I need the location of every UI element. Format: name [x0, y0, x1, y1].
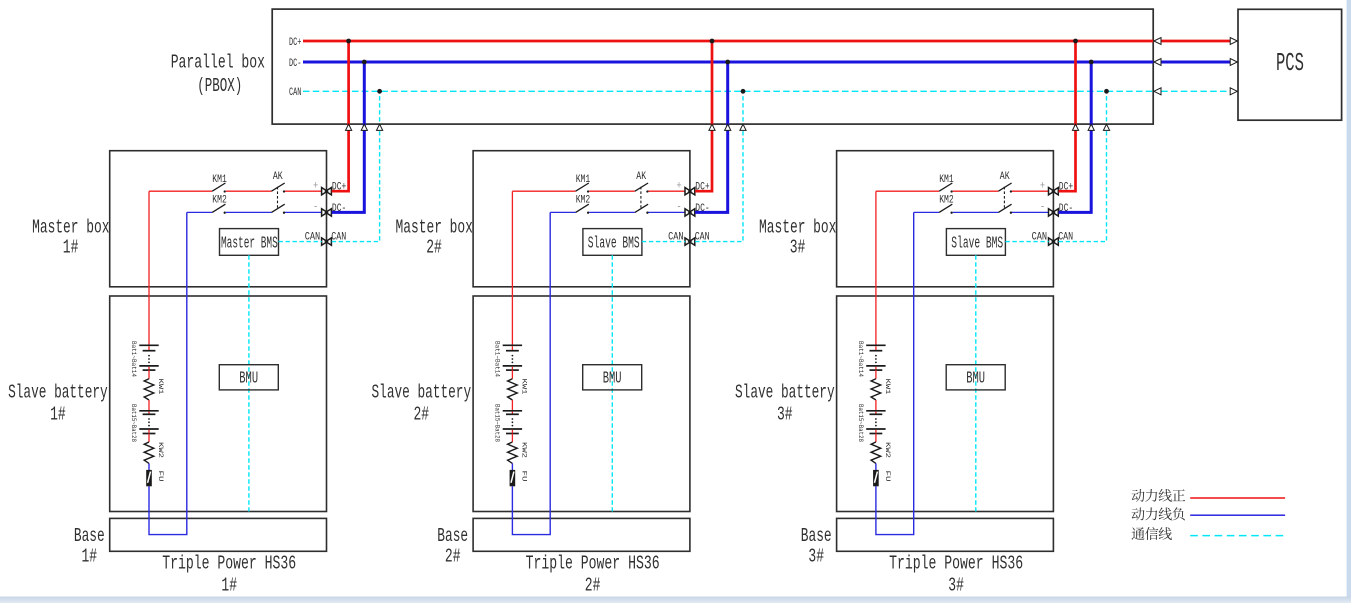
- legend line communication: [1132, 527, 1286, 540]
- svg-text:3#: 3#: [777, 403, 793, 425]
- junction dot DC- bus set 1: [362, 60, 367, 65]
- svg-text:1#: 1#: [82, 546, 98, 568]
- label Base 2: [437, 525, 468, 568]
- wire cyan CAN link terminal to CAN bus box 3: [1059, 91, 1107, 241]
- breaker AK box 3: [998, 171, 1012, 214]
- svg-text:2#: 2#: [585, 575, 601, 597]
- svg-text:AK: AK: [1000, 171, 1010, 183]
- wire red from master box down to battery stack 3: [875, 191, 877, 345]
- BMU box 2: [583, 365, 642, 390]
- svg-text:Triple Power HS36: Triple Power HS36: [889, 553, 1023, 575]
- svg-text:AK: AK: [273, 171, 283, 183]
- wire CAN dashed from BMS to terminal box 1: [279, 241, 322, 243]
- label Master box 3: [759, 216, 836, 258]
- net CAN bus (cyan dashed): [289, 87, 1153, 99]
- svg-text:Base: Base: [437, 525, 468, 547]
- svg-text:KM2: KM2: [939, 194, 954, 206]
- resistor KW2 set 1: [144, 442, 164, 463]
- svg-text:Slave BMS: Slave BMS: [951, 234, 1003, 253]
- base box 2 enclosure: [473, 518, 690, 551]
- Parallel box (PBOX) enclosure: [272, 9, 1153, 124]
- battery Bat15~Bat28 set 1: [139, 411, 158, 434]
- base box 3 enclosure: [837, 518, 1054, 551]
- fuse FU set 1: [146, 470, 164, 486]
- svg-text:1#: 1#: [50, 403, 66, 425]
- svg-text:KW1: KW1: [157, 379, 164, 395]
- BMS box 2: [583, 229, 642, 256]
- legend line power negative: [1132, 507, 1285, 520]
- wire PBOX to PCS DC- link: [1154, 59, 1237, 66]
- svg-text:Triple Power HS36: Triple Power HS36: [526, 553, 660, 575]
- BMS box 1: [220, 229, 279, 256]
- wire CAN dashed from BMS to terminal box 3: [1005, 241, 1048, 243]
- battery Bat15~Bat28 set 3: [866, 411, 885, 434]
- svg-text:-: -: [1040, 202, 1045, 214]
- svg-text:Master box: Master box: [396, 216, 473, 238]
- label Slave battery 3: [735, 382, 835, 426]
- svg-text:BMU: BMU: [966, 368, 985, 387]
- svg-text:Bat1~Bat14: Bat1~Bat14: [857, 341, 864, 377]
- svg-text:Base: Base: [74, 525, 105, 547]
- connector arrows into PBOX set 3: [1072, 124, 1109, 130]
- BMU box 3: [946, 365, 1005, 390]
- battery Bat1~Bat14 set 2: [503, 345, 522, 370]
- svg-text:-: -: [676, 202, 681, 214]
- wire blue negative path inside master box 2: [550, 211, 685, 213]
- wire blue fuse through base box up to KM2 set 3: [876, 212, 914, 534]
- wire CAN dashed vertical from BMS down to BMU box 2: [611, 255, 613, 511]
- BMU box 1: [219, 365, 278, 390]
- svg-text:Master box: Master box: [759, 216, 836, 238]
- svg-text:FU: FU: [884, 471, 891, 482]
- label Base 1: [74, 525, 105, 568]
- wire red positive path inside master box 2: [512, 190, 685, 192]
- resistor KW1 set 1: [144, 379, 164, 401]
- fuse FU set 2: [510, 470, 528, 486]
- svg-text:3#: 3#: [948, 575, 964, 597]
- svg-text:Slave battery: Slave battery: [8, 382, 108, 404]
- svg-text:KM1: KM1: [576, 174, 591, 186]
- label Triple Power HS36 2: [526, 553, 660, 597]
- terminal DC- bowtie box 3: [1040, 202, 1073, 216]
- junction dot DC+ bus set 3: [1073, 39, 1078, 44]
- svg-text:+: +: [313, 181, 319, 193]
- junction dot DC+ bus set 1: [346, 39, 351, 44]
- wire CAN dashed vertical from BMS down to BMU box 3: [975, 255, 977, 511]
- svg-text:KW2: KW2: [157, 442, 164, 458]
- svg-text:FU: FU: [157, 471, 164, 482]
- terminal DC- bowtie box 2: [676, 202, 709, 216]
- svg-text:1#: 1#: [221, 575, 237, 597]
- connector arrows into PBOX set 2: [709, 124, 746, 130]
- wire blue fuse through base box up to KM2 set 2: [512, 212, 550, 534]
- slave battery box 3 enclosure: [837, 296, 1054, 512]
- svg-text:3#: 3#: [790, 237, 806, 259]
- resistor KW1 set 3: [871, 379, 891, 401]
- terminal DC+ bowtie box 2: [676, 181, 709, 195]
- svg-text:FU: FU: [520, 471, 527, 482]
- wire thick red link terminal to DC+ bus box 2: [695, 41, 712, 191]
- svg-text:Bat1~Bat14: Bat1~Bat14: [493, 341, 500, 377]
- svg-text:Bat1~Bat14: Bat1~Bat14: [130, 341, 137, 377]
- label Base 3: [801, 525, 832, 568]
- svg-text:CAN: CAN: [289, 87, 301, 99]
- label Master box 1: [32, 216, 109, 258]
- svg-text:AK: AK: [636, 171, 646, 183]
- svg-text:BMU: BMU: [239, 368, 258, 387]
- battery Bat15~Bat28 set 2: [503, 411, 522, 434]
- base box 1 enclosure: [110, 518, 327, 551]
- wire blue resistor to fuse set 3: [875, 463, 877, 470]
- master box 1 enclosure: [110, 151, 327, 287]
- junction dot CAN bus set 3: [1104, 89, 1109, 94]
- junction dot CAN bus set 2: [741, 89, 746, 94]
- svg-text:(PBOX): (PBOX): [197, 75, 242, 97]
- label Master box 2: [396, 216, 473, 258]
- breaker AK box 1: [272, 171, 286, 214]
- svg-text:1#: 1#: [63, 237, 79, 259]
- wire red from master box down to battery stack 1: [148, 191, 150, 345]
- wire thick red link terminal to DC+ bus box 3: [1059, 41, 1076, 191]
- wire cyan CAN link terminal to CAN bus box 2: [695, 91, 743, 241]
- svg-text:Bat15~Bat28: Bat15~Bat28: [857, 404, 864, 442]
- wire PBOX to PCS CAN link: [1154, 88, 1237, 95]
- contactor KM1 box 3: [939, 174, 954, 192]
- wire blue fuse through base box up to KM2 set 1: [149, 212, 187, 534]
- svg-text:DC+: DC+: [289, 37, 302, 49]
- terminal DC+ bowtie box 3: [1040, 181, 1073, 195]
- wire red battery link 2 set 3: [875, 400, 877, 411]
- net DC- bus (blue): [289, 58, 1153, 70]
- wire red battery link set 3: [875, 370, 877, 379]
- svg-text:KW1: KW1: [520, 379, 527, 395]
- junction dot DC+ bus set 2: [710, 39, 715, 44]
- svg-text:BMU: BMU: [603, 368, 622, 387]
- svg-text:KW2: KW2: [520, 442, 527, 458]
- svg-text:Slave battery: Slave battery: [372, 382, 472, 404]
- wire thick blue link terminal to DC- bus box 2: [695, 62, 728, 212]
- wire CAN dashed vertical from BMS down to BMU box 1: [248, 255, 250, 511]
- junction dot DC- bus set 2: [725, 60, 730, 65]
- contactor KM2 box 3: [939, 194, 954, 213]
- svg-text:+: +: [1040, 181, 1046, 193]
- wire thick blue link terminal to DC- bus box 1: [332, 62, 365, 212]
- wire red battery link 3 set 3: [875, 434, 877, 443]
- junction dot CAN bus set 1: [377, 89, 382, 94]
- legend line power positive: [1132, 489, 1285, 502]
- junction dot DC- bus set 3: [1089, 60, 1094, 65]
- slave battery box 2 enclosure: [473, 296, 690, 512]
- terminal DC- bowtie box 1: [313, 202, 346, 216]
- wire red battery link 2 set 2: [511, 400, 513, 411]
- contactor KM2 box 1: [212, 194, 227, 213]
- svg-text:KM2: KM2: [576, 194, 591, 206]
- wire thick red link terminal to DC+ bus box 1: [332, 41, 349, 191]
- PCS box: [1238, 9, 1342, 120]
- master box 2 enclosure: [473, 151, 690, 287]
- svg-text:KM2: KM2: [212, 194, 227, 206]
- svg-text:3#: 3#: [808, 546, 824, 568]
- resistor KW2 set 2: [508, 442, 528, 463]
- net DC+ bus (red): [289, 37, 1153, 49]
- svg-text:2#: 2#: [445, 546, 461, 568]
- wire red battery link 2 set 1: [148, 400, 150, 411]
- window edge band right: [1347, 0, 1351, 603]
- svg-text:PCS: PCS: [1276, 49, 1304, 78]
- svg-text:+: +: [676, 181, 682, 193]
- wire red battery link set 2: [511, 370, 513, 379]
- breaker AK box 2: [635, 171, 649, 214]
- svg-text:2#: 2#: [426, 237, 442, 259]
- svg-text:DC-: DC-: [289, 58, 301, 70]
- BMS box 3: [946, 229, 1005, 256]
- wire blue negative path inside master box 3: [914, 211, 1049, 213]
- fuse FU set 3: [873, 470, 891, 486]
- wire red from master box down to battery stack 2: [511, 191, 513, 345]
- master box 3 enclosure: [837, 151, 1054, 287]
- label Parallel box (PBOX): [171, 51, 265, 97]
- label Triple Power HS36 1: [162, 553, 296, 597]
- contactor KM1 box 2: [576, 174, 591, 192]
- svg-text:Bat15~Bat28: Bat15~Bat28: [493, 404, 500, 442]
- wire CAN dashed from BMS to terminal box 2: [642, 241, 685, 243]
- window edge band bottom: [0, 597, 1351, 603]
- wire cyan CAN link terminal to CAN bus box 1: [332, 91, 380, 241]
- wire red battery link set 1: [148, 370, 150, 379]
- label Slave battery 1: [8, 382, 108, 426]
- svg-text:Base: Base: [801, 525, 832, 547]
- wire blue negative path inside master box 1: [187, 211, 322, 213]
- svg-text:Parallel box: Parallel box: [171, 51, 265, 73]
- connector arrows into PBOX set 1: [346, 124, 383, 130]
- svg-text:Slave battery: Slave battery: [735, 382, 835, 404]
- resistor KW1 set 2: [508, 379, 528, 401]
- svg-text:KM1: KM1: [212, 174, 227, 186]
- wire thick blue link terminal to DC- bus box 3: [1059, 62, 1092, 212]
- resistor KW2 set 3: [871, 442, 891, 463]
- contactor KM1 box 1: [212, 174, 227, 192]
- svg-text:Triple Power HS36: Triple Power HS36: [162, 553, 296, 575]
- slave battery box 1 enclosure: [110, 296, 327, 512]
- wire red positive path inside master box 1: [149, 190, 322, 192]
- wire blue resistor to fuse set 1: [148, 463, 150, 470]
- svg-text:Bat15~Bat28: Bat15~Bat28: [130, 404, 137, 442]
- terminal CAN bowtie box 1: [305, 231, 347, 245]
- battery Bat1~Bat14 set 3: [866, 345, 885, 370]
- svg-text:KW2: KW2: [884, 442, 891, 458]
- battery Bat1~Bat14 set 1: [139, 345, 158, 370]
- svg-text:Master BMS: Master BMS: [221, 234, 278, 253]
- wire red positive path inside master box 3: [876, 190, 1049, 192]
- terminal CAN bowtie box 2: [668, 231, 710, 245]
- svg-text:KW1: KW1: [884, 379, 891, 395]
- svg-text:-: -: [313, 202, 318, 214]
- terminal CAN bowtie box 3: [1032, 231, 1074, 245]
- contactor KM2 box 2: [576, 194, 591, 213]
- svg-text:KM1: KM1: [939, 174, 954, 186]
- svg-text:2#: 2#: [414, 403, 430, 425]
- wire red battery link 3 set 1: [148, 434, 150, 443]
- wire red battery link 3 set 2: [511, 434, 513, 443]
- label Slave battery 2: [372, 382, 472, 426]
- wire PBOX to PCS DC+ link: [1154, 38, 1237, 45]
- terminal DC+ bowtie box 1: [313, 181, 346, 195]
- svg-text:Slave BMS: Slave BMS: [588, 234, 640, 253]
- wire blue resistor to fuse set 2: [511, 463, 513, 470]
- svg-text:Master box: Master box: [32, 216, 109, 238]
- label Triple Power HS36 3: [889, 553, 1023, 597]
